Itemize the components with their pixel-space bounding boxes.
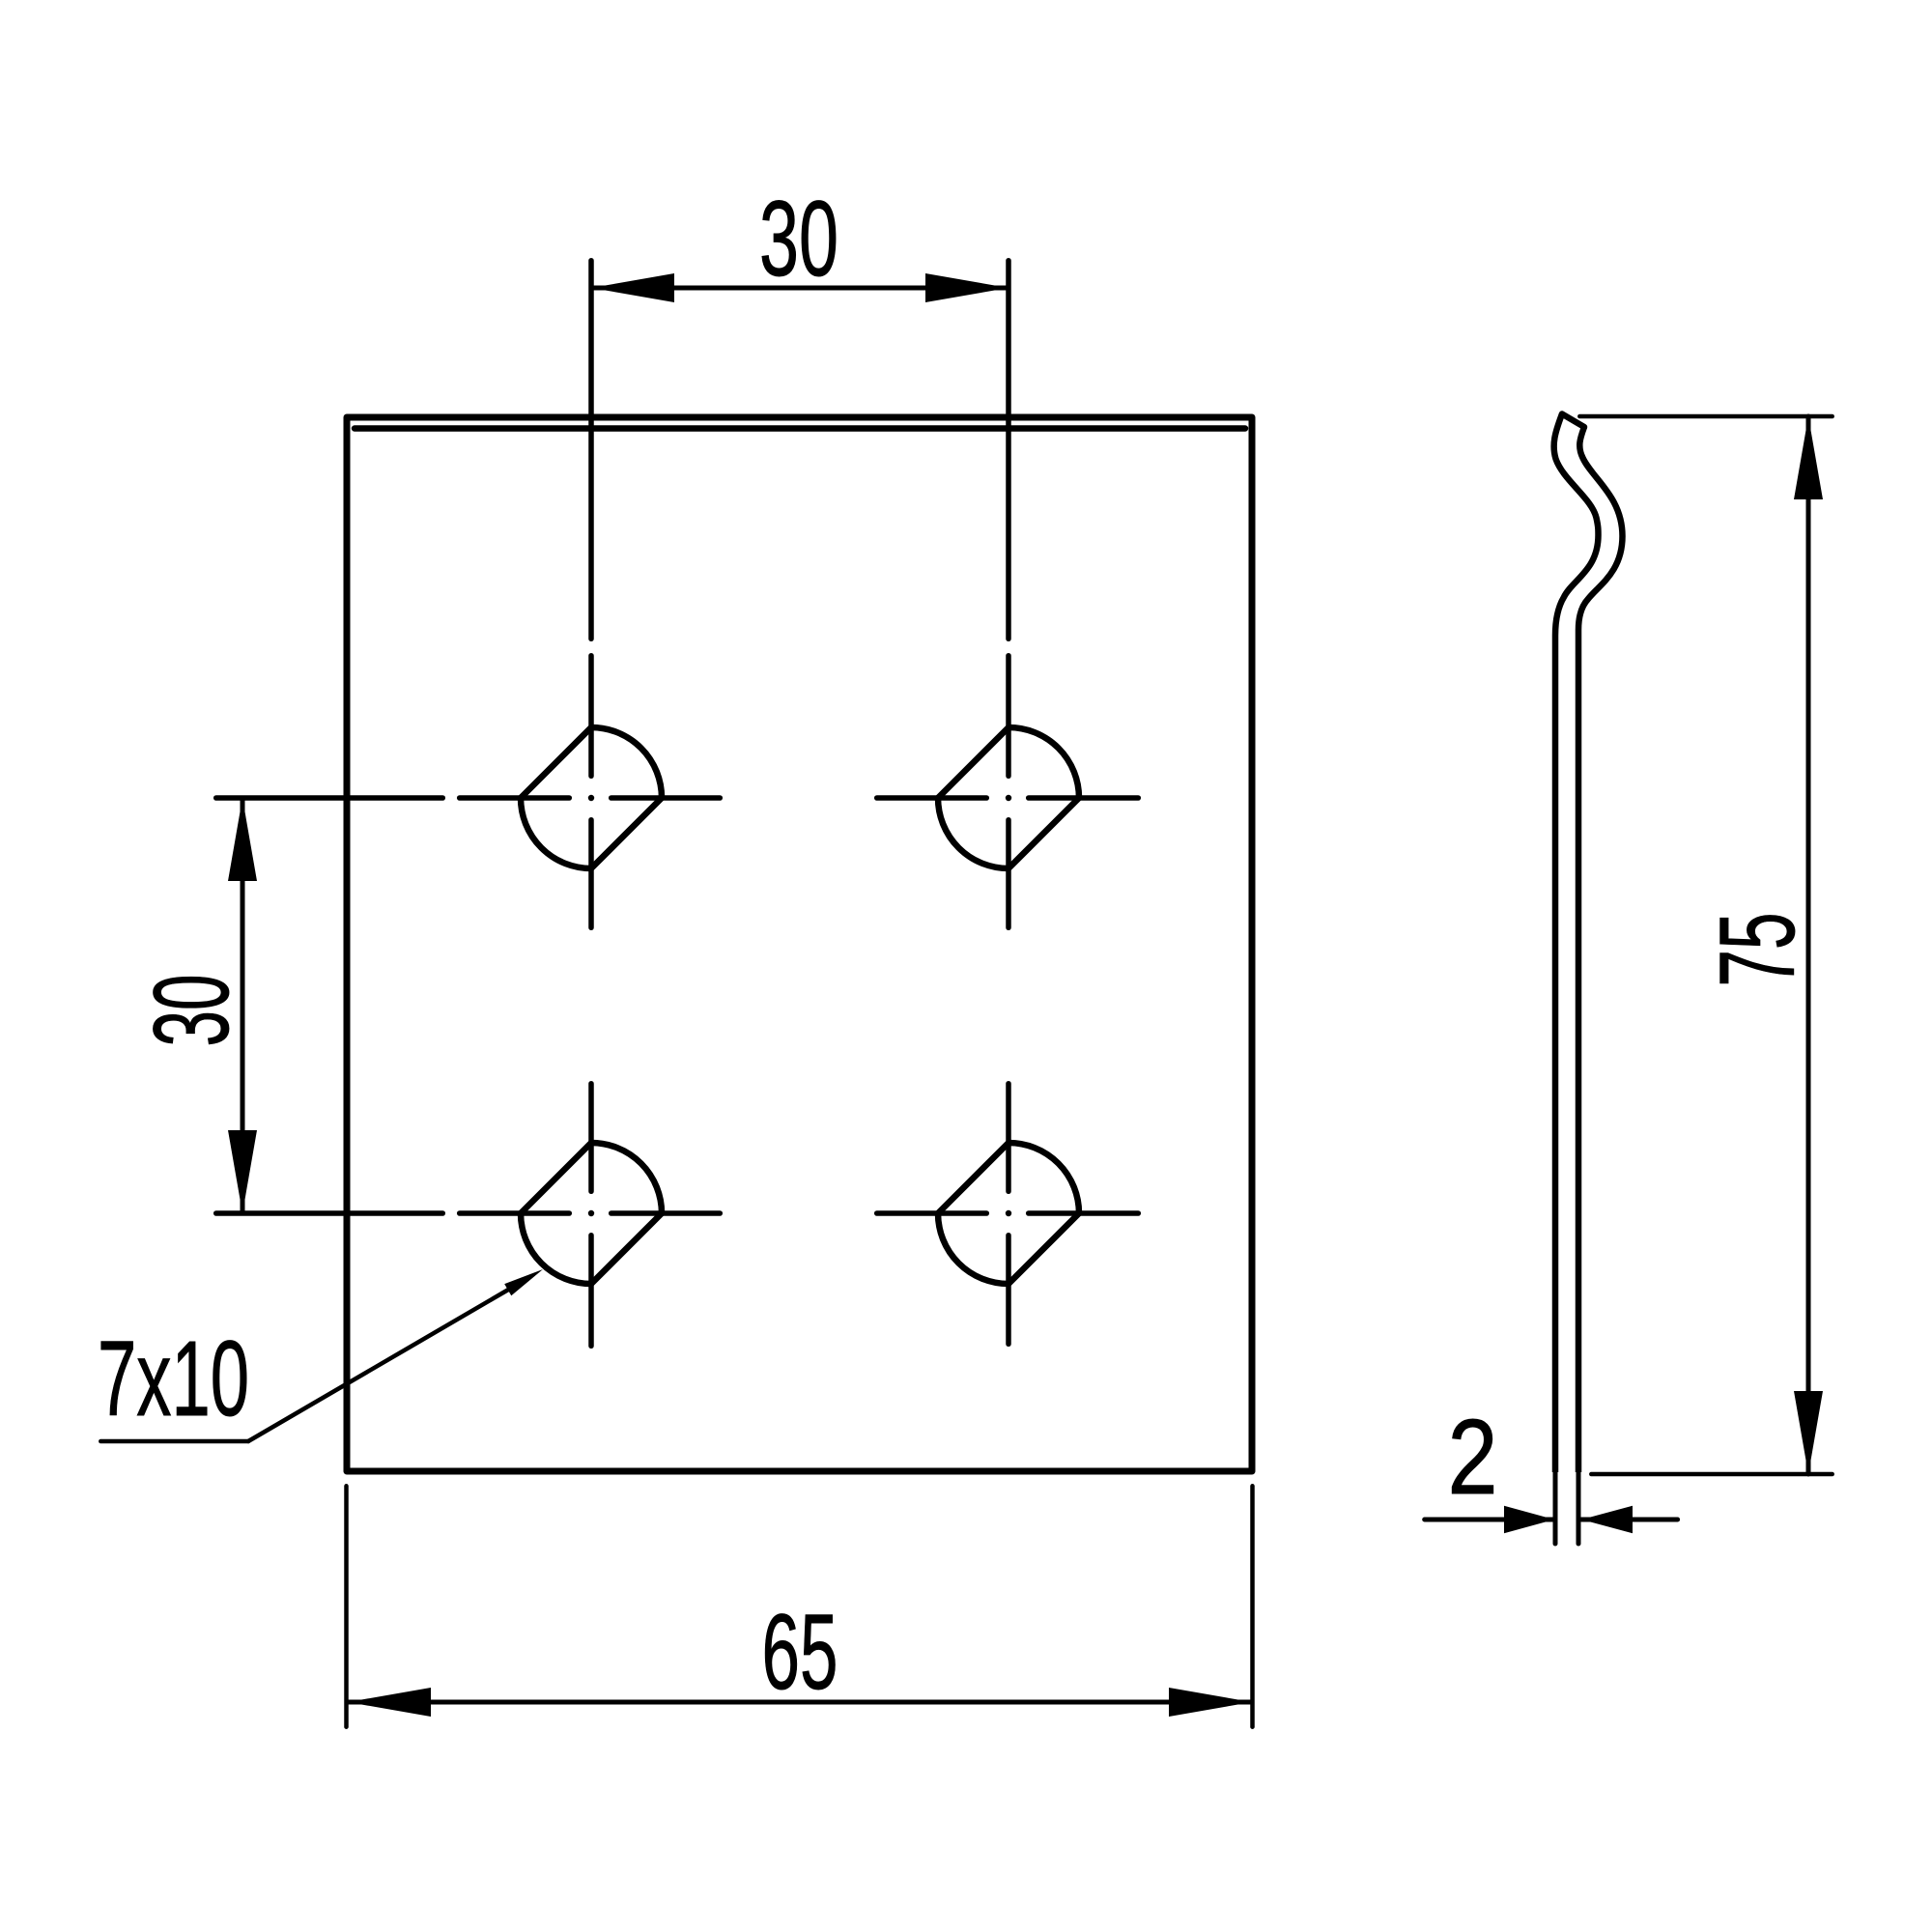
svg-text:7x10: 7x10 [98, 1320, 249, 1438]
svg-text:2: 2 [1448, 1398, 1498, 1517]
svg-text:30: 30 [132, 975, 251, 1047]
svg-text:30: 30 [759, 180, 838, 298]
svg-text:65: 65 [762, 1593, 838, 1712]
svg-text:75: 75 [1698, 913, 1817, 987]
